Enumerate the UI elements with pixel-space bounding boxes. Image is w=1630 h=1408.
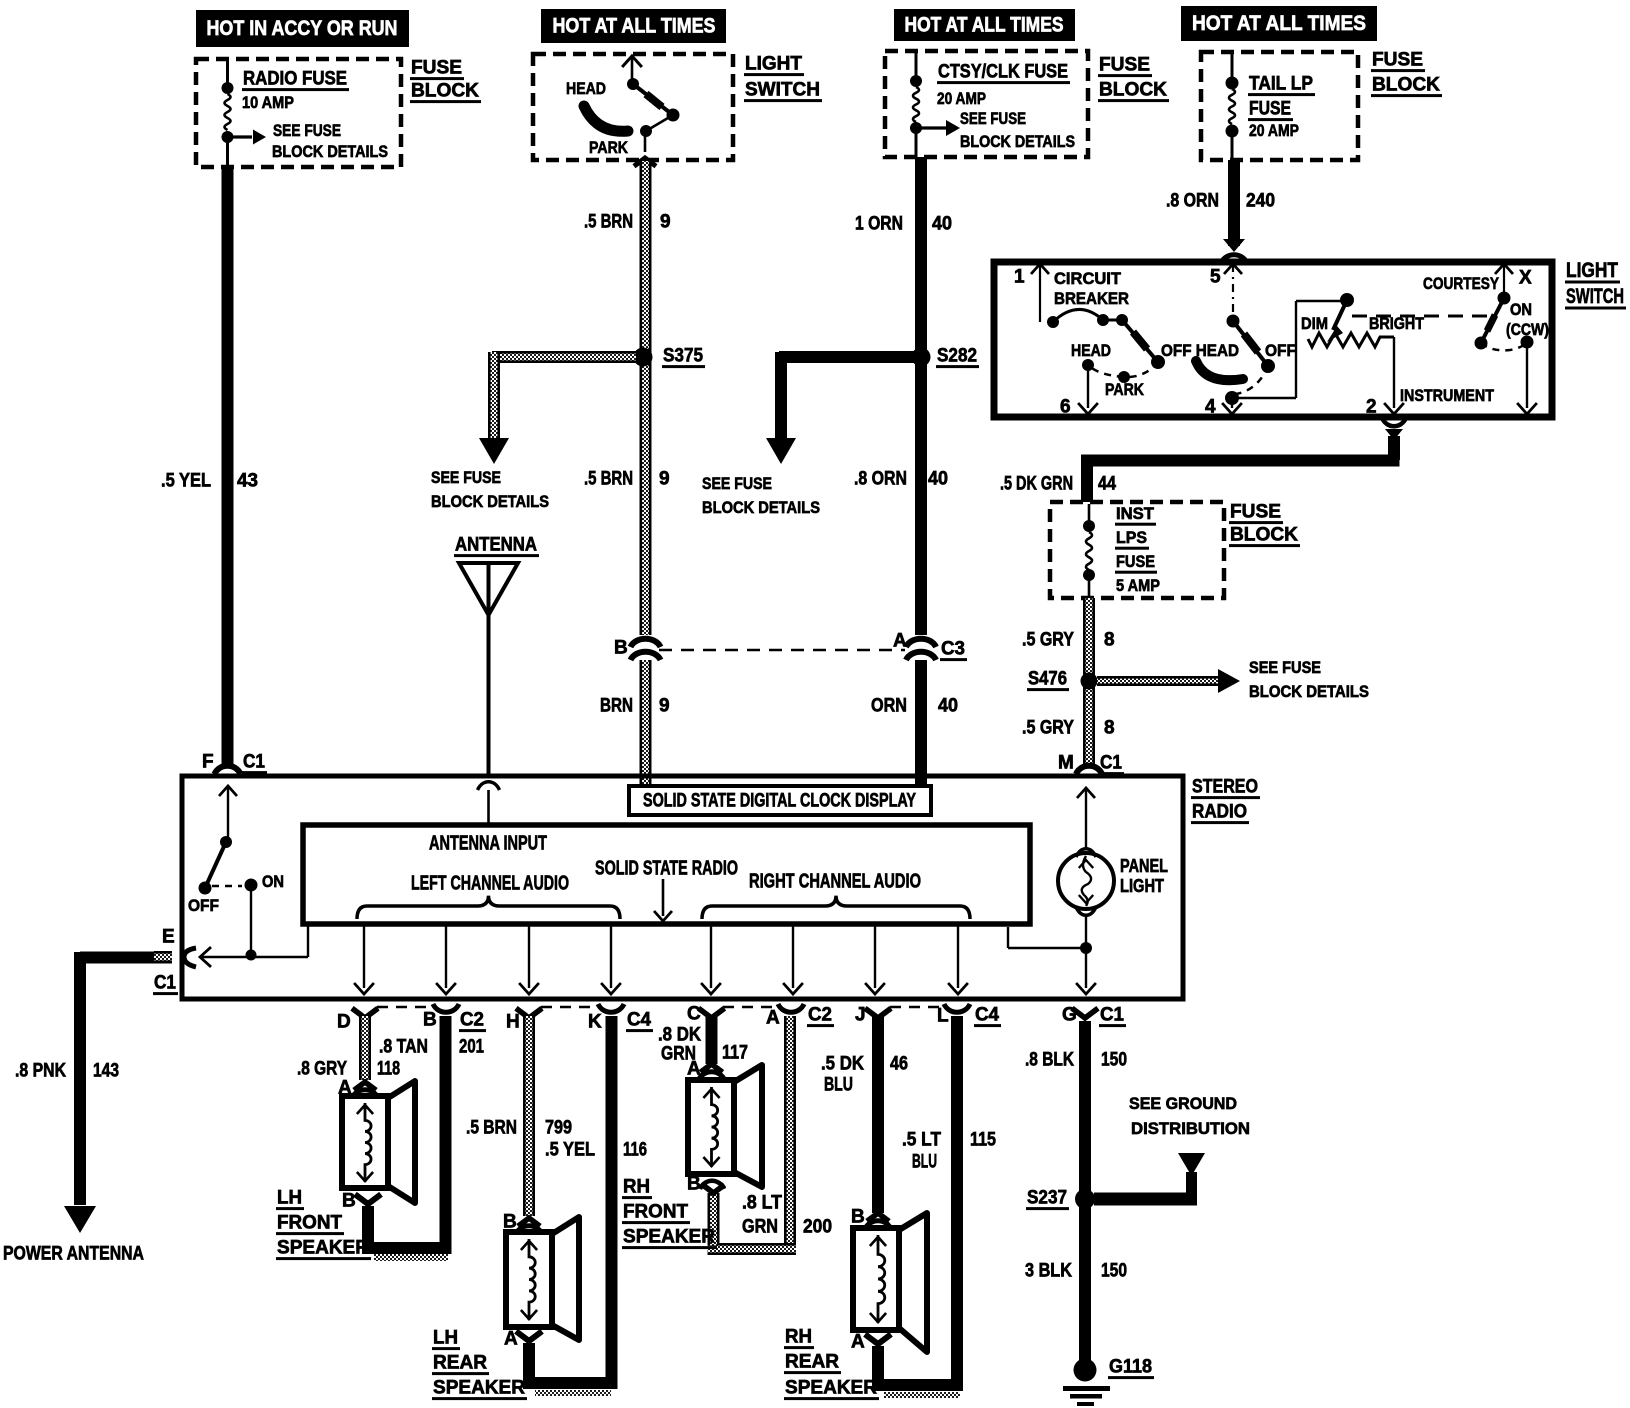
fuse INST LPS FUSE 5 AMP <box>1083 504 1095 598</box>
ground G118 <box>1063 1359 1110 1407</box>
svg-text:G118: G118 <box>1109 1357 1152 1378</box>
label .5 LT BLU 115 <box>902 1130 996 1173</box>
wire .8 TAN 201 (pin B return) <box>440 1016 452 1254</box>
label SEE FUSE BLOCK DETAILS <box>272 121 388 161</box>
connector at light switch park output <box>634 158 656 166</box>
svg-text:HEAD: HEAD <box>1071 341 1111 360</box>
svg-text:X: X <box>1519 268 1532 289</box>
wire BRN 9 (lower) <box>640 660 652 786</box>
svg-text:.8 BLK: .8 BLK <box>1025 1050 1074 1071</box>
header: HOT AT ALL TIMES (ctsy/clk) <box>894 9 1075 41</box>
arrow: see fuse block details (ctsy) <box>920 120 960 136</box>
branch S237 to ground distribution <box>1094 1172 1197 1206</box>
svg-text:ANTENNA: ANTENNA <box>455 535 537 556</box>
wire 1 ORN 40 (ctsy fuse down) <box>915 157 927 635</box>
park/head switch lever (pins 5-4) <box>1227 315 1276 374</box>
label INST LPS FUSE 5 AMP <box>1115 504 1160 595</box>
svg-text:HOT AT ALL TIMES: HOT AT ALL TIMES <box>1192 12 1366 35</box>
radio power switch (from pin F) <box>199 786 258 955</box>
label 3 BLK 150 <box>1025 1261 1127 1282</box>
pin 2 output <box>1366 337 1404 418</box>
label .8 ORN 240 <box>1166 191 1275 212</box>
arrowhead to fuse block details (left) <box>479 438 509 464</box>
svg-text:A: A <box>851 1332 865 1353</box>
svg-text:150: 150 <box>1101 1050 1127 1071</box>
svg-text:SOLID STATE DIGITAL CLOCK DISP: SOLID STATE DIGITAL CLOCK DISPLAY <box>643 791 916 812</box>
svg-text:F: F <box>202 752 214 773</box>
svg-text:150: 150 <box>1101 1261 1127 1282</box>
svg-text:LIGHT: LIGHT <box>745 54 802 75</box>
fuse block (CTSY/CLK FUSE) dashed box <box>885 51 1088 157</box>
svg-text:40: 40 <box>932 214 952 235</box>
svg-text:5 AMP: 5 AMP <box>1116 576 1160 595</box>
svg-text:FRONT: FRONT <box>623 1202 688 1223</box>
wire RH rear speaker A to .5 LT BLU <box>872 1346 963 1398</box>
antenna connector at radio box <box>478 782 500 790</box>
connector C3 pin B <box>614 638 661 660</box>
svg-text:POWER ANTENNA: POWER ANTENNA <box>3 1244 144 1265</box>
svg-text:44: 44 <box>1098 474 1116 495</box>
svg-text:SEE FUSE: SEE FUSE <box>273 121 341 140</box>
svg-text:BLOCK: BLOCK <box>411 81 479 102</box>
svg-text:SEE FUSE: SEE FUSE <box>1249 658 1321 677</box>
label .8 GRY 118 <box>297 1059 400 1080</box>
label .5 BRN 9 (top) <box>584 212 671 233</box>
head/park contact positions (left) <box>1082 359 1158 383</box>
label .5 DK BLU 46 <box>821 1054 908 1096</box>
svg-text:FUSE: FUSE <box>1230 502 1281 523</box>
svg-text:SOLID STATE RADIO: SOLID STATE RADIO <box>595 857 738 879</box>
arrow: see fuse block details <box>231 130 266 145</box>
svg-text:.5 BRN: .5 BRN <box>584 212 633 233</box>
label FUSE BLOCK <box>410 58 481 104</box>
label .8 PNK 143 <box>15 1061 119 1082</box>
wire .8 ORN 240 (tail lp fuse to light switch pin 5) <box>1228 160 1240 246</box>
svg-text:HEAD: HEAD <box>566 79 606 98</box>
dashed link D-B <box>377 1006 432 1009</box>
svg-text:REAR: REAR <box>785 1352 839 1373</box>
label LIGHT SWITCH <box>744 54 822 103</box>
svg-text:BREAKER: BREAKER <box>1054 289 1129 308</box>
svg-text:C2: C2 <box>460 1010 484 1031</box>
clock display box <box>629 786 931 815</box>
svg-text:43: 43 <box>237 471 258 492</box>
svg-text:ANTENNA INPUT: ANTENNA INPUT <box>429 832 547 854</box>
svg-text:RADIO: RADIO <box>1192 802 1247 823</box>
panel light lamp <box>1058 788 1114 944</box>
branch S476 to fuse block details <box>1097 669 1240 693</box>
svg-text:116: 116 <box>623 1140 647 1161</box>
svg-text:SEE FUSE: SEE FUSE <box>960 109 1026 128</box>
head contact crescent <box>584 106 628 131</box>
RH rear speaker coil <box>878 1235 885 1323</box>
radio pin C connector <box>687 1004 725 1025</box>
svg-text:J: J <box>855 1005 866 1026</box>
radio pin E connector <box>153 927 196 996</box>
dashed link J-L <box>890 1006 946 1009</box>
svg-text:115: 115 <box>970 1130 996 1151</box>
light switch assembly box <box>994 262 1552 417</box>
svg-text:.5 GRY: .5 GRY <box>1022 630 1074 651</box>
wire 3 BLK 150 (S237 to ground) <box>1079 1199 1091 1366</box>
wire .8 PNK 143 (pin E to power antenna) <box>74 951 172 1205</box>
svg-text:GRN: GRN <box>742 1217 778 1238</box>
courtesy output node <box>1517 336 1537 415</box>
svg-text:INST: INST <box>1116 504 1155 523</box>
svg-text:CIRCUIT: CIRCUIT <box>1054 269 1122 288</box>
RH rear speaker pin B <box>851 1207 891 1229</box>
svg-text:.8 LT: .8 LT <box>742 1193 782 1214</box>
svg-text:RH: RH <box>623 1177 650 1198</box>
svg-text:ON: ON <box>262 872 284 891</box>
svg-text:LPS: LPS <box>1116 528 1147 547</box>
wire ORN 40 (lower) <box>915 660 927 786</box>
label .5 BRN 799 <box>466 1118 572 1139</box>
pin X arrow <box>1495 264 1532 294</box>
radio internal amplifier box <box>303 825 1030 924</box>
fuse TAIL LP FUSE 20 AMP <box>1226 54 1239 158</box>
light switch (head/park contacts) dashed box <box>533 54 733 160</box>
speaker LH FRONT <box>342 1096 388 1188</box>
label FUSE BLOCK (ctsy) <box>1098 55 1169 103</box>
svg-text:HOT AT ALL TIMES: HOT AT ALL TIMES <box>553 15 716 38</box>
svg-text:RH: RH <box>785 1327 812 1348</box>
RH front speaker pin A <box>687 1059 725 1080</box>
svg-text:BLOCK DETAILS: BLOCK DETAILS <box>960 132 1075 151</box>
radio pin D connector <box>337 1008 378 1032</box>
label RH REAR SPEAKER <box>784 1327 879 1401</box>
svg-text:A: A <box>766 1008 780 1029</box>
svg-text:S476: S476 <box>1028 669 1067 690</box>
svg-text:B: B <box>342 1191 356 1212</box>
LH front speaker coil <box>365 1103 371 1182</box>
svg-text:BRN: BRN <box>600 696 633 717</box>
LH rear speaker coil <box>529 1239 535 1320</box>
fuse CTSY/CLK FUSE 20 AMP <box>910 53 922 157</box>
wire LH rear speaker A to .5 YEL <box>523 1343 617 1396</box>
radio pin J connector <box>855 1005 891 1026</box>
pin 5 arrow <box>1210 264 1242 316</box>
radio pin L connector (C4) <box>937 1004 1001 1027</box>
svg-text:A: A <box>893 631 907 652</box>
svg-text:BLOCK: BLOCK <box>1099 80 1167 101</box>
svg-text:9: 9 <box>659 696 670 717</box>
svg-text:INSTRUMENT: INSTRUMENT <box>1400 386 1495 405</box>
svg-text:HOT AT ALL TIMES: HOT AT ALL TIMES <box>905 14 1064 37</box>
label .8 BLK 150 <box>1025 1050 1127 1071</box>
LH front speaker pin A <box>338 1078 378 1099</box>
headlamp switch lever (pins 1-6) <box>1122 320 1165 369</box>
light switch internal: feed arrow and lever <box>622 56 679 152</box>
svg-text:20 AMP: 20 AMP <box>937 89 986 108</box>
svg-text:143: 143 <box>93 1061 119 1082</box>
arrowhead from ground distribution <box>1178 1153 1205 1176</box>
label .5 YEL 43 <box>161 471 258 492</box>
label RH FRONT SPEAKER <box>622 1177 717 1250</box>
svg-text:SPEAKER: SPEAKER <box>785 1378 877 1399</box>
label .5 GRY 8 (lower) <box>1022 718 1115 739</box>
RH rear speaker pin A <box>851 1332 891 1353</box>
svg-text:B: B <box>687 1174 701 1195</box>
svg-text:9: 9 <box>660 212 671 233</box>
LH rear speaker pin B <box>503 1212 542 1234</box>
svg-text:BLOCK: BLOCK <box>1230 525 1298 546</box>
wire .5 DK GRN 44 (pin 2 to inst lps fuse) <box>1081 436 1400 502</box>
label .5 GRY 8 (upper) <box>1022 630 1115 651</box>
svg-text:240: 240 <box>1246 191 1275 212</box>
splice S237 <box>1075 1189 1095 1209</box>
svg-text:C4: C4 <box>975 1005 999 1026</box>
svg-text:SPEAKER: SPEAKER <box>623 1227 715 1248</box>
svg-text:REAR: REAR <box>433 1353 487 1374</box>
wire .5 YEL 43 (radio fuse to radio pin F) <box>222 167 234 764</box>
svg-text:RADIO FUSE: RADIO FUSE <box>243 69 347 90</box>
svg-text:K: K <box>588 1012 602 1033</box>
radio pin K connector (C4) <box>588 1004 653 1033</box>
svg-text:SEE FUSE: SEE FUSE <box>702 474 772 493</box>
wire .5 LT BLU 115 (pin L return) <box>951 1016 963 1391</box>
antenna symbol <box>454 535 539 776</box>
svg-text:ORN: ORN <box>871 696 907 717</box>
svg-text:HOT IN ACCY OR RUN: HOT IN ACCY OR RUN <box>207 17 398 40</box>
svg-text:RIGHT CHANNEL AUDIO: RIGHT CHANNEL AUDIO <box>749 870 921 892</box>
label SEE FUSE BLOCK DETAILS (middle) <box>702 474 820 517</box>
label LH REAR SPEAKER <box>432 1328 527 1401</box>
svg-text:ON: ON <box>1510 300 1532 319</box>
label 1 ORN 40 <box>855 214 952 235</box>
svg-text:4: 4 <box>1205 397 1216 418</box>
mechanical link dashed (dimmer to courtesy) <box>1352 315 1490 318</box>
svg-text:3 BLK: 3 BLK <box>1025 1261 1072 1282</box>
svg-text:PARK: PARK <box>1105 380 1145 399</box>
svg-text:10 AMP: 10 AMP <box>242 93 294 112</box>
pin 4 node <box>1205 391 1242 418</box>
svg-text:BLOCK DETAILS: BLOCK DETAILS <box>431 492 549 511</box>
svg-text:SEE GROUND: SEE GROUND <box>1129 1094 1237 1113</box>
svg-text:FUSE: FUSE <box>1249 99 1291 120</box>
RH front speaker coil <box>712 1087 718 1167</box>
svg-text:OFF HEAD: OFF HEAD <box>1161 341 1239 360</box>
svg-text:DIM: DIM <box>1301 314 1328 333</box>
svg-text:799: 799 <box>545 1118 572 1139</box>
svg-text:.5 LT: .5 LT <box>902 1130 941 1151</box>
svg-text:C1: C1 <box>243 752 265 773</box>
label FUSE BLOCK (tail lp) <box>1371 50 1442 98</box>
svg-text:6: 6 <box>1060 397 1071 418</box>
svg-text:SPEAKER: SPEAKER <box>433 1378 525 1399</box>
label PANEL LIGHT <box>1120 856 1168 896</box>
svg-text:LIGHT: LIGHT <box>1120 876 1164 896</box>
label ON (CCW) <box>1506 300 1549 339</box>
svg-text:H: H <box>506 1012 520 1033</box>
label FUSE BLOCK (inst) <box>1229 502 1300 548</box>
svg-text:LIGHT: LIGHT <box>1566 259 1618 282</box>
connector C3 pin A <box>893 631 936 660</box>
svg-text:S282: S282 <box>937 346 977 367</box>
label .8 DK GRN 117 <box>658 1025 748 1065</box>
splice S375 <box>634 348 653 367</box>
svg-text:40: 40 <box>938 696 958 717</box>
label TAIL LP FUSE 20 AMP <box>1248 74 1315 141</box>
dimmer rheostat lever <box>1327 293 1354 342</box>
svg-text:200: 200 <box>803 1217 832 1238</box>
wire .8 BLK 150 (pin G to splice S237) <box>1079 1021 1091 1199</box>
svg-text:118: 118 <box>377 1059 400 1080</box>
svg-text:8: 8 <box>1104 718 1115 739</box>
svg-text:1: 1 <box>1014 267 1025 288</box>
svg-text:C1: C1 <box>154 973 176 994</box>
connector at light switch pin 5 <box>1221 239 1247 263</box>
connector at light switch pin 2 output <box>1382 418 1406 440</box>
header: HOT AT ALL TIMES (light switch feed) <box>541 9 726 43</box>
svg-text:CTSY/CLK FUSE: CTSY/CLK FUSE <box>938 62 1068 83</box>
svg-text:LEFT CHANNEL AUDIO: LEFT CHANNEL AUDIO <box>411 872 569 894</box>
rheostat element <box>1308 333 1394 347</box>
svg-text:B: B <box>423 1010 437 1031</box>
left channel brace <box>357 896 620 919</box>
wire .8 DK GRN 117 (pin C to RH front speaker) <box>706 1016 718 1064</box>
svg-text:.8 DK: .8 DK <box>658 1025 701 1046</box>
amplifier output arrows <box>354 925 968 994</box>
svg-text:20 AMP: 20 AMP <box>1249 121 1299 140</box>
svg-text:.5 DK: .5 DK <box>821 1054 864 1075</box>
svg-text:LH: LH <box>433 1328 458 1349</box>
pin 1 arrow <box>1014 264 1049 322</box>
svg-text:PANEL: PANEL <box>1120 856 1168 876</box>
svg-text:BLOCK DETAILS: BLOCK DETAILS <box>1249 682 1369 701</box>
svg-text:.5 BRN: .5 BRN <box>466 1118 517 1139</box>
arrowhead power antenna <box>64 1206 96 1233</box>
wire .8 GRY 118 (pin D to LH front speaker) <box>359 1016 371 1080</box>
speaker RH REAR <box>853 1228 899 1330</box>
label .8 TAN 201 <box>379 1037 484 1058</box>
wire .5 YEL 116 (pin K return) <box>606 1016 618 1389</box>
fuse RADIO FUSE 10 AMP <box>222 61 234 165</box>
label BRN 9 <box>600 696 670 717</box>
radio pin A connector (C2) <box>766 1004 834 1029</box>
speaker LH REAR <box>506 1232 552 1327</box>
svg-text:BLOCK: BLOCK <box>1372 75 1440 96</box>
svg-text:.8 TAN: .8 TAN <box>379 1037 428 1058</box>
svg-text:SEE FUSE: SEE FUSE <box>431 468 501 487</box>
svg-text:OFF: OFF <box>1265 341 1296 360</box>
svg-text:.5 DK GRN: .5 DK GRN <box>1000 474 1073 495</box>
radio pin M connector <box>1058 753 1124 776</box>
label CIRCUIT BREAKER <box>1054 269 1129 308</box>
antenna lead inside radio <box>487 790 490 825</box>
connector C3 dashed line <box>659 649 905 652</box>
LH front speaker pin B <box>342 1191 381 1212</box>
wire LH front speaker B to .8 TAN <box>362 1206 452 1261</box>
svg-text:.8 GRY: .8 GRY <box>297 1059 347 1080</box>
label STEREO RADIO <box>1191 777 1260 825</box>
dashed link H-K <box>541 1006 597 1009</box>
label .5 DK GRN 44 <box>1000 474 1116 495</box>
svg-text:C1: C1 <box>1100 1005 1124 1026</box>
svg-text:FRONT: FRONT <box>277 1213 342 1234</box>
svg-text:E: E <box>162 927 175 948</box>
svg-text:PARK: PARK <box>589 138 629 157</box>
label SEE FUSE BLOCK DETAILS (left) <box>431 468 549 511</box>
svg-text:S237: S237 <box>1027 1188 1067 1209</box>
circuit breaker <box>1047 309 1128 328</box>
svg-text:S375: S375 <box>663 346 703 367</box>
speaker RH FRONT <box>688 1080 734 1174</box>
svg-text:C4: C4 <box>627 1010 651 1031</box>
svg-text:117: 117 <box>722 1043 748 1064</box>
label ORN 40 <box>871 696 958 717</box>
svg-text:.5 YEL: .5 YEL <box>545 1140 595 1161</box>
header: HOT AT ALL TIMES (tail lp) <box>1181 6 1377 41</box>
header: HOT IN ACCY OR RUN <box>196 10 409 47</box>
svg-text:9: 9 <box>659 469 670 490</box>
fuse block (TAIL LP FUSE) dashed box <box>1201 52 1358 160</box>
label LH FRONT SPEAKER <box>276 1188 371 1261</box>
wire .5 DK BLU 46 (pin J to RH rear speaker) <box>872 1016 884 1213</box>
fuse block (RADIO FUSE) dashed box <box>196 59 401 167</box>
svg-text:.8 PNK: .8 PNK <box>15 1061 66 1082</box>
splice S476 <box>1081 673 1098 690</box>
svg-text:BLOCK DETAILS: BLOCK DETAILS <box>702 498 820 517</box>
radio pin H connector <box>506 1008 542 1032</box>
courtesy contact dashed <box>1481 342 1527 350</box>
wire branch from S375 to fuse block details <box>488 351 636 438</box>
wire pin4 node to dimmer <box>1232 301 1344 398</box>
arrowhead to fuse block details (middle) <box>766 438 796 464</box>
svg-text:46: 46 <box>890 1054 908 1075</box>
svg-text:SPEAKER: SPEAKER <box>277 1238 369 1259</box>
svg-text:TAIL LP: TAIL LP <box>1249 74 1313 95</box>
right channel brace <box>702 896 970 919</box>
svg-text:201: 201 <box>459 1037 484 1058</box>
svg-text:SWITCH: SWITCH <box>745 80 820 101</box>
svg-text:FUSE: FUSE <box>1116 552 1155 571</box>
svg-text:8: 8 <box>1104 630 1115 651</box>
wire .5 BRN 9 (park feed, upper) <box>640 161 652 635</box>
label .5 YEL 116 <box>545 1140 647 1161</box>
svg-text:BLU: BLU <box>912 1152 937 1173</box>
svg-text:FUSE: FUSE <box>411 58 462 79</box>
svg-text:.5 GRY: .5 GRY <box>1022 718 1074 739</box>
svg-text:C2: C2 <box>808 1005 832 1026</box>
svg-text:2: 2 <box>1366 397 1377 418</box>
fuse block (INST LPS FUSE) dashed box <box>1050 502 1224 598</box>
stereo radio box <box>182 776 1183 999</box>
svg-text:LH: LH <box>277 1188 302 1209</box>
svg-text:FUSE: FUSE <box>1372 50 1423 71</box>
radio pin F connector <box>202 752 267 775</box>
label SEE FUSE BLOCK DETAILS (right) <box>1249 658 1369 701</box>
svg-text:C: C <box>687 1004 701 1025</box>
svg-text:BLU: BLU <box>824 1075 853 1096</box>
svg-text:DISTRIBUTION: DISTRIBUTION <box>1131 1119 1250 1138</box>
label SEE FUSE BLOCK DETAILS (ctsy) <box>960 109 1075 151</box>
label .5 BRN 9 (upper) <box>584 469 670 490</box>
svg-text:M: M <box>1058 753 1074 774</box>
courtesy switch lever <box>1475 292 1511 350</box>
head contact crescent (main switch) <box>1196 361 1243 380</box>
svg-text:D: D <box>337 1012 351 1033</box>
svg-text:C3: C3 <box>941 639 965 660</box>
wire .5 GRY 8 (inst fuse to radio pin M) <box>1083 598 1095 764</box>
svg-text:40: 40 <box>928 469 948 490</box>
pin 6 output arrow <box>1060 365 1098 418</box>
splice S282 <box>912 348 931 367</box>
wire .5 BRN 799 (pin H to LH rear speaker) <box>523 1016 535 1216</box>
label LIGHT SWITCH (main) <box>1565 259 1626 310</box>
RH front speaker pin B <box>687 1174 725 1195</box>
svg-text:.8 ORN: .8 ORN <box>1166 191 1219 212</box>
